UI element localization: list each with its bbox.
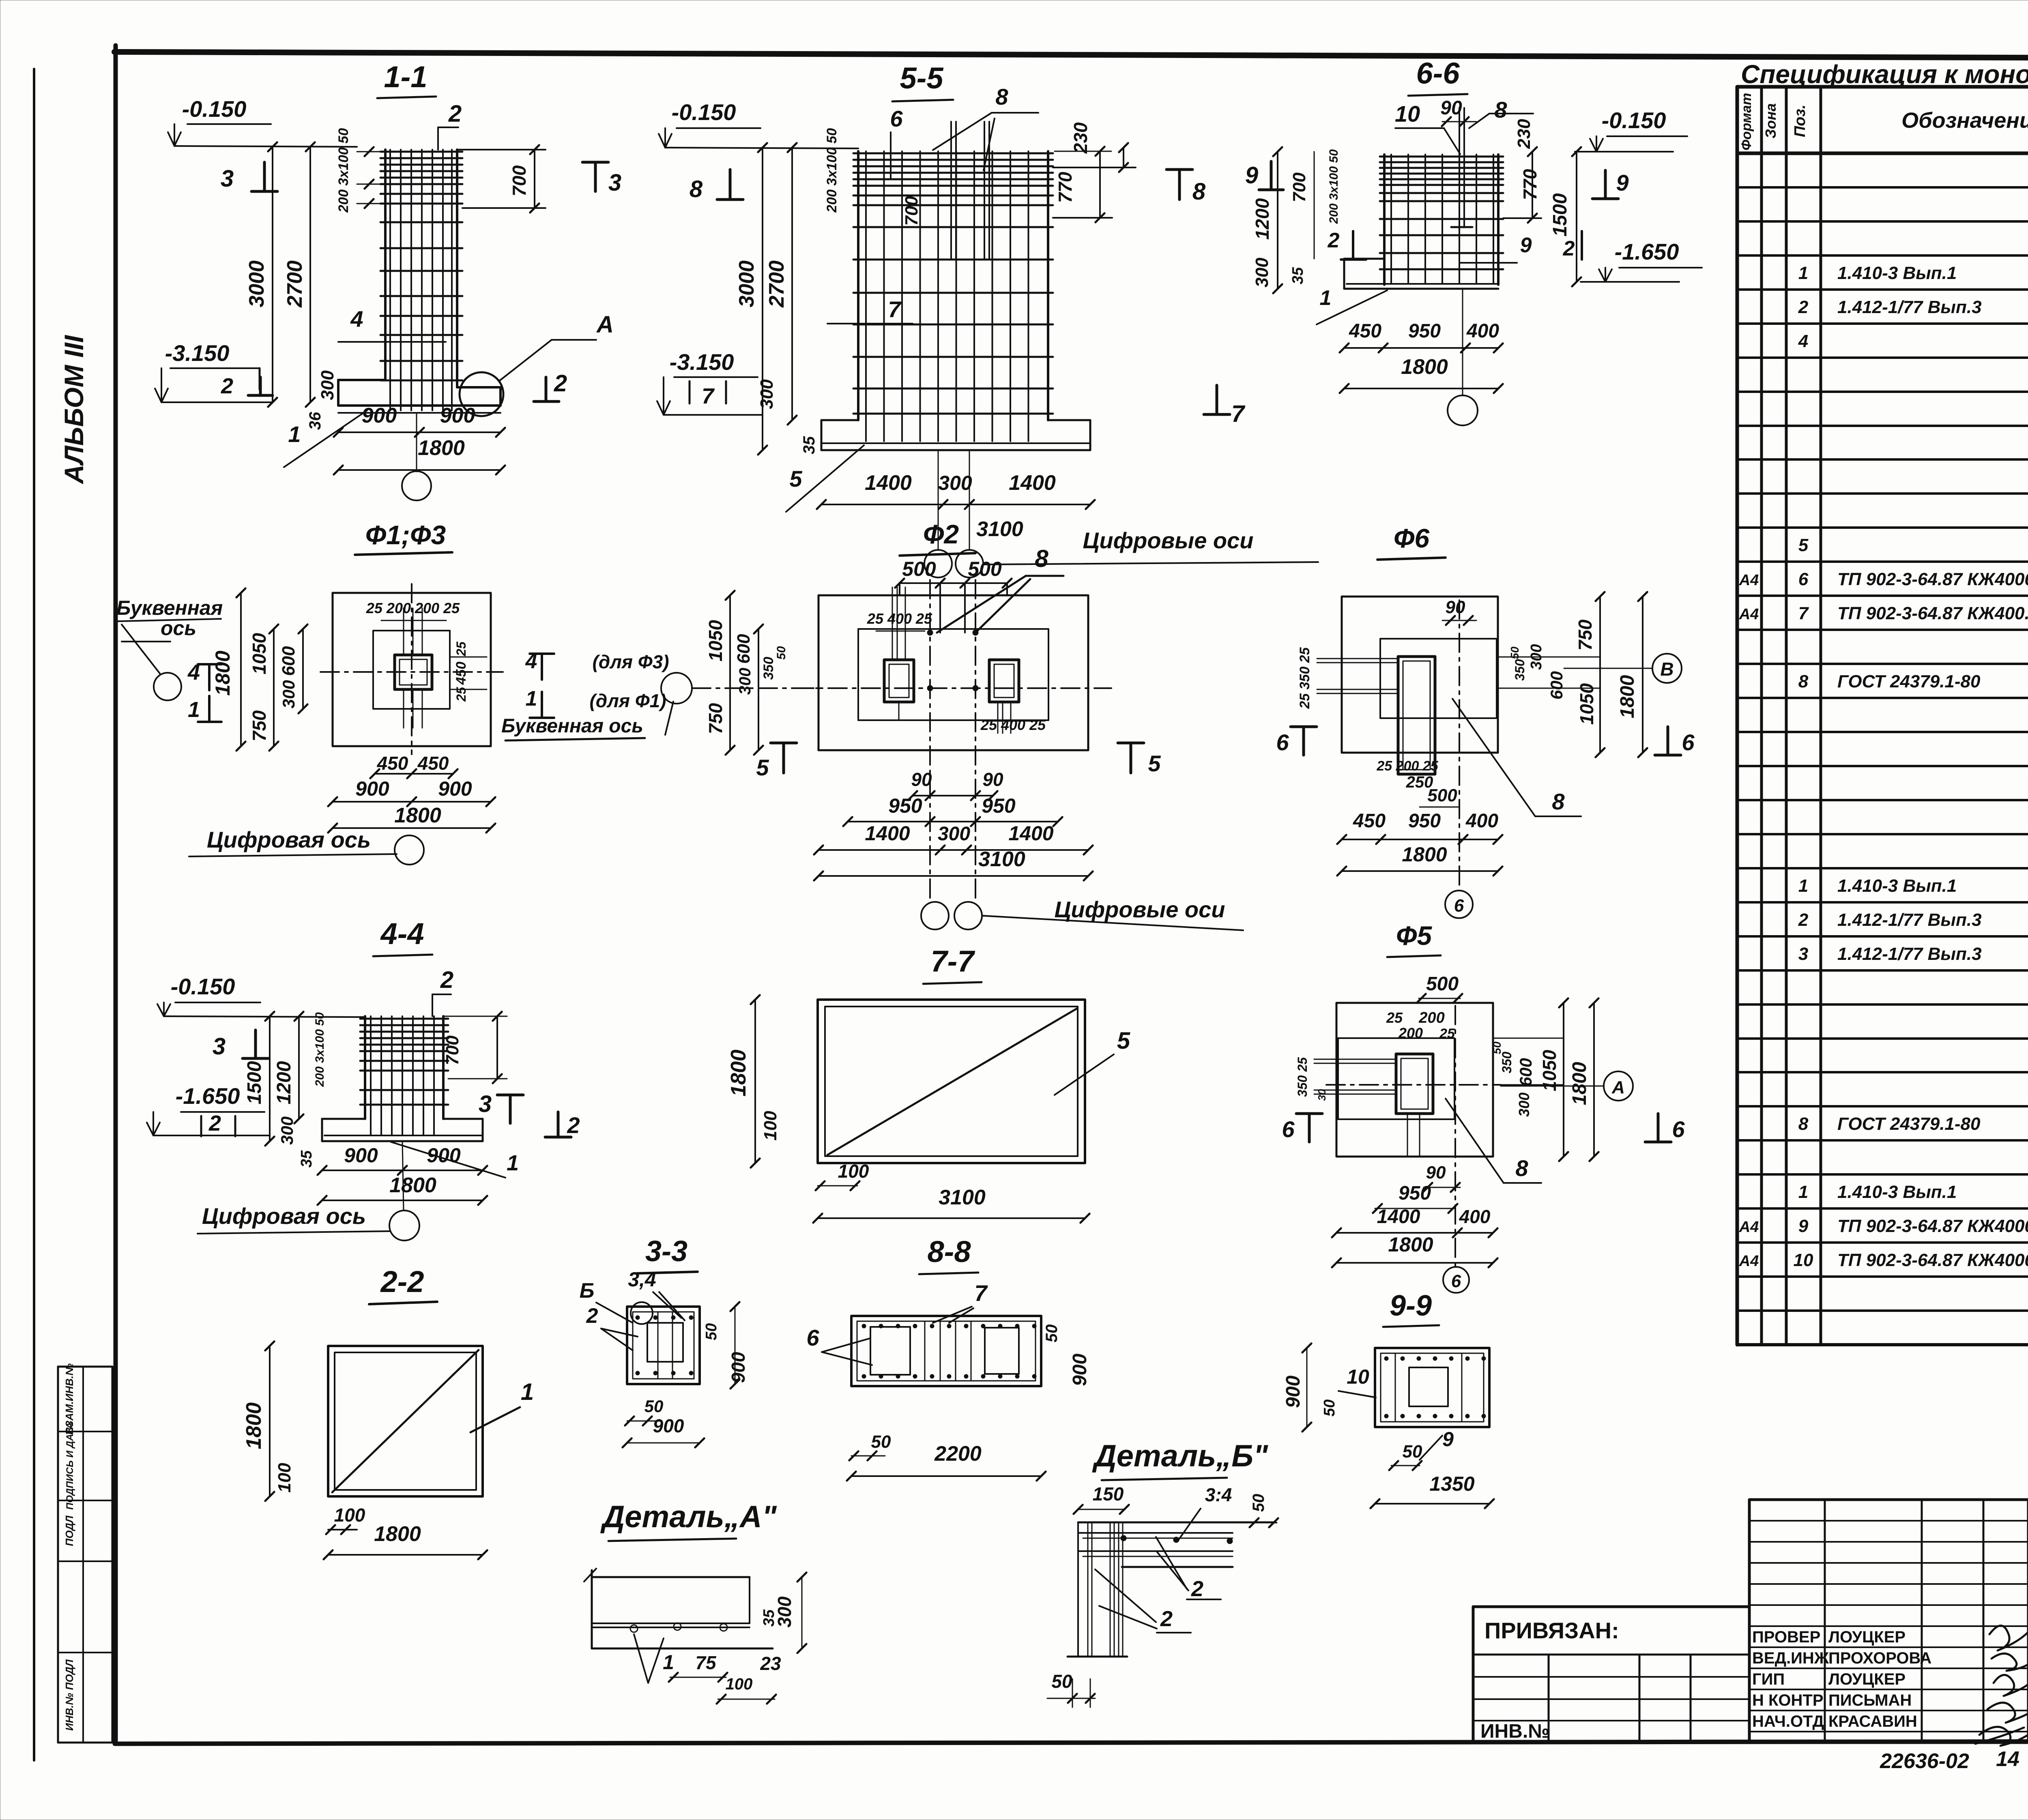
plan Ф6 right dims bbox=[1498, 592, 1647, 757]
svg-text:Зона: Зона bbox=[1762, 103, 1779, 139]
svg-text:400: 400 bbox=[1459, 1206, 1491, 1227]
title block signature grid bbox=[1749, 1500, 2028, 1743]
section 5-5 dims 3000 2700 bbox=[735, 143, 797, 455]
svg-text:770: 770 bbox=[1519, 169, 1540, 200]
album label "Альбом III" bbox=[59, 335, 89, 485]
svg-text:ПОДПИСЬ И ДАТА: ПОДПИСЬ И ДАТА bbox=[64, 1422, 75, 1510]
svg-text:3000: 3000 bbox=[245, 260, 269, 307]
section 5-5 level -3.150 bbox=[657, 349, 763, 415]
svg-text:1800: 1800 bbox=[1617, 675, 1638, 718]
svg-text:1400: 1400 bbox=[1377, 1206, 1420, 1228]
title block signatures bbox=[1975, 1626, 2028, 1746]
section 6-6 right dims 770 1500 bbox=[1503, 147, 1581, 286]
svg-text:5: 5 bbox=[1117, 1028, 1130, 1054]
svg-text:8: 8 bbox=[1552, 789, 1565, 814]
svg-text:700: 700 bbox=[902, 196, 922, 226]
svg-text:750: 750 bbox=[705, 703, 726, 734]
svg-text:50: 50 bbox=[775, 646, 788, 660]
section 2-2 panel bbox=[328, 1346, 483, 1496]
svg-text:3:4: 3:4 bbox=[1205, 1484, 1232, 1505]
section 1-1 mark 1 leader bbox=[284, 410, 367, 467]
plan Ф5 label bbox=[1387, 921, 1441, 957]
svg-text:25: 25 bbox=[454, 641, 468, 657]
svg-text:25 200 25: 25 200 25 bbox=[1376, 758, 1438, 774]
svg-text:600: 600 bbox=[1516, 1058, 1535, 1086]
svg-text:50: 50 bbox=[1403, 1442, 1422, 1462]
svg-text:7-7: 7-7 bbox=[931, 944, 976, 978]
section 1-1 axis circle bbox=[402, 414, 431, 500]
svg-text:50: 50 bbox=[1043, 1324, 1061, 1343]
svg-text:6: 6 bbox=[1672, 1116, 1685, 1142]
section 1-1 cut mark 3 left bbox=[221, 162, 277, 192]
svg-text:950: 950 bbox=[982, 794, 1016, 817]
detail A figure bbox=[584, 1569, 773, 1648]
svg-text:-1.650: -1.650 bbox=[176, 1083, 240, 1109]
section 7-7 label bbox=[923, 944, 982, 984]
svg-text:450: 450 bbox=[377, 753, 408, 774]
svg-text:1050: 1050 bbox=[1576, 683, 1597, 725]
title block left extension bbox=[1473, 1607, 1749, 1743]
svg-text:Спецификация к монолитным фунд: Спецификация к монолитным фундаментам bbox=[1741, 60, 2028, 89]
plan Ф2 label bbox=[900, 519, 975, 556]
svg-text:6: 6 bbox=[1682, 730, 1695, 755]
svg-text:150: 150 bbox=[1093, 1483, 1124, 1505]
section 6-6 column reinforcement grid bbox=[1380, 155, 1503, 285]
svg-text:1: 1 bbox=[188, 698, 200, 722]
svg-text:ГОСТ 24379.1-80: ГОСТ 24379.1-80 bbox=[1837, 672, 1981, 691]
section 4-4 cut mark 2 right bbox=[545, 1112, 580, 1138]
svg-text:1200: 1200 bbox=[1252, 198, 1273, 240]
plan Ф2 top dims 500 500 bbox=[895, 558, 1012, 633]
section 5-5 mark 7 leader bbox=[827, 296, 913, 324]
section 8-8 panel bbox=[851, 1316, 1041, 1386]
plan Ф2 column bar extensions bbox=[892, 587, 1011, 733]
svg-text:6: 6 bbox=[1454, 896, 1464, 916]
plan Ф2 numeric axes circles bbox=[921, 897, 1243, 930]
svg-text:1: 1 bbox=[288, 421, 301, 447]
section 8-8 dims bbox=[847, 1324, 1091, 1481]
svg-text:2700: 2700 bbox=[283, 260, 307, 308]
svg-text:ЛОУЦКЕР: ЛОУЦКЕР bbox=[1828, 1670, 1906, 1688]
svg-text:А4: А4 bbox=[1739, 606, 1759, 623]
svg-text:6-6: 6-6 bbox=[1416, 56, 1460, 90]
section 1-1 column reinforcement grid bbox=[380, 150, 462, 410]
svg-text:900: 900 bbox=[440, 404, 475, 427]
svg-text:Ф1;Ф3: Ф1;Ф3 bbox=[365, 520, 446, 550]
svg-text:500: 500 bbox=[902, 558, 936, 580]
svg-text:200: 200 bbox=[1418, 1009, 1444, 1026]
svg-text:14: 14 bbox=[1996, 1747, 2019, 1771]
plan Ф5 bars left bbox=[1295, 1057, 1396, 1101]
svg-text:АЛЬБОМ III: АЛЬБОМ III bbox=[59, 335, 89, 485]
svg-text:900: 900 bbox=[427, 1144, 461, 1167]
svg-text:900: 900 bbox=[362, 404, 397, 427]
svg-text:(для Ф1): (для Ф1) bbox=[589, 690, 666, 711]
svg-text:ЛОУЦКЕР: ЛОУЦКЕР bbox=[1828, 1628, 1906, 1646]
svg-text:1400: 1400 bbox=[1008, 822, 1053, 845]
svg-text:ПОДЛ: ПОДЛ bbox=[63, 1515, 75, 1546]
section 6-6 footing outline bbox=[1344, 259, 1498, 289]
plan Ф1;Ф3 label bbox=[355, 520, 452, 555]
svg-text:1400: 1400 bbox=[1009, 471, 1056, 495]
section 4-4 left dims 1500 1200 bbox=[244, 1012, 327, 1168]
svg-text:200 3х100 50: 200 3х100 50 bbox=[313, 1012, 327, 1087]
svg-text:Ф5: Ф5 bbox=[1396, 921, 1433, 951]
svg-text:2: 2 bbox=[1563, 237, 1575, 260]
svg-text:6: 6 bbox=[1276, 730, 1289, 755]
svg-text:Поз.: Поз. bbox=[1792, 105, 1809, 137]
svg-text:3-3: 3-3 bbox=[645, 1235, 687, 1268]
svg-text:950: 950 bbox=[1399, 1183, 1431, 1204]
plan Ф1;Ф3 section marks 4 and 1 left bbox=[187, 660, 221, 722]
svg-text:1.410-3 Вып.1: 1.410-3 Вып.1 bbox=[1837, 1182, 1957, 1202]
svg-text:10: 10 bbox=[1794, 1250, 1813, 1270]
section 1-1 rebar mark 4 bbox=[338, 306, 446, 342]
svg-text:-0.150: -0.150 bbox=[182, 96, 247, 122]
svg-text:ТП 902-3-64.87 КЖ40000.03.0: ТП 902-3-64.87 КЖ40000.03.00 bbox=[1837, 569, 2028, 589]
svg-text:900: 900 bbox=[438, 777, 472, 800]
svg-text:200 3х100 50: 200 3х100 50 bbox=[824, 128, 840, 213]
svg-text:300: 300 bbox=[279, 680, 298, 708]
svg-text:1050: 1050 bbox=[249, 633, 270, 674]
svg-text:Буквенная: Буквенная bbox=[116, 597, 223, 619]
svg-text:50: 50 bbox=[871, 1432, 891, 1452]
section 6-6 level -1.650 bbox=[1581, 239, 1702, 282]
section 6-6 anchor bolt and mark 8 bbox=[1440, 97, 1533, 227]
svg-text:90: 90 bbox=[1426, 1163, 1446, 1183]
svg-text:А: А bbox=[596, 311, 614, 338]
section 1-1 bottom dims 900+900 1800 bbox=[334, 404, 505, 474]
svg-text:5: 5 bbox=[1148, 751, 1161, 776]
plan Ф5 column bbox=[1396, 1054, 1433, 1156]
svg-text:3: 3 bbox=[479, 1091, 492, 1117]
svg-text:ТП 902-3-64.87 КЖ40000.01.00: ТП 902-3-64.87 КЖ40000.01.00 bbox=[1837, 1216, 2028, 1236]
section 1-1 cut label 2 top bbox=[438, 101, 462, 150]
plan Ф2 axes dashes and dots bbox=[795, 580, 1111, 901]
svg-text:600: 600 bbox=[279, 646, 299, 676]
svg-text:1.410-3 Вып.1: 1.410-3 Вып.1 bbox=[1837, 876, 1957, 896]
plan Ф6 column bbox=[1398, 657, 1435, 774]
svg-text:4: 4 bbox=[1798, 331, 1808, 351]
section 5-5 axis circles bbox=[924, 450, 1318, 577]
svg-text:ПРОВЕР: ПРОВЕР bbox=[1752, 1628, 1820, 1646]
svg-text:5: 5 bbox=[1798, 535, 1809, 555]
section 5-5 column reinforcement grid bbox=[853, 151, 1053, 441]
svg-text:1500: 1500 bbox=[1549, 193, 1571, 236]
svg-text:300: 300 bbox=[757, 379, 777, 409]
plan Ф1;Ф3 left dims bbox=[211, 588, 307, 751]
specification table header bbox=[1739, 93, 2028, 150]
svg-text:90: 90 bbox=[982, 769, 1003, 790]
svg-text:6: 6 bbox=[1282, 1116, 1295, 1142]
svg-text:25: 25 bbox=[1386, 1009, 1403, 1026]
plan Ф2 small dims 25 400 25 top bbox=[867, 610, 1046, 733]
svg-text:8-8: 8-8 bbox=[928, 1235, 971, 1268]
plan Ф2 cut mark 5 right bbox=[1118, 743, 1161, 776]
svg-text:-0.150: -0.150 bbox=[1602, 107, 1666, 133]
svg-text:450: 450 bbox=[417, 753, 449, 774]
section 5-5 dims 700 770 right bbox=[902, 143, 1136, 226]
plan Ф5 numeric axis circle bbox=[1443, 1267, 1469, 1293]
plan Ф2 cut mark 5 left bbox=[756, 743, 797, 780]
section 4-4 cut label 2 top bbox=[432, 967, 453, 1016]
svg-text:300: 300 bbox=[1516, 1092, 1532, 1117]
section 1-1 cut mark 2 right bbox=[534, 370, 567, 401]
svg-text:Формат: Формат bbox=[1739, 93, 1754, 150]
plan Ф2 outline bbox=[819, 595, 1088, 750]
svg-text:ПРИВЯЗАН:: ПРИВЯЗАН: bbox=[1484, 1618, 1619, 1643]
svg-text:100: 100 bbox=[275, 1463, 294, 1493]
svg-text:4: 4 bbox=[350, 306, 363, 332]
section 2-2 label bbox=[369, 1265, 437, 1304]
svg-text:6: 6 bbox=[890, 106, 903, 131]
plan Ф6 bottom dims bbox=[1337, 758, 1502, 876]
plan Ф1;Ф3 bottom dims bbox=[328, 753, 495, 833]
svg-text:2: 2 bbox=[567, 1112, 580, 1138]
svg-text:950: 950 bbox=[888, 794, 922, 817]
plan Ф6 cut marks 6 bbox=[1276, 727, 1695, 755]
svg-text:9: 9 bbox=[1442, 1428, 1454, 1451]
section 4-4 cut mark 3 right bbox=[479, 1091, 523, 1123]
svg-text:1050: 1050 bbox=[705, 620, 726, 661]
svg-text:Буквенная ось: Буквенная ось bbox=[501, 715, 643, 737]
svg-text:Цифровые оси: Цифровые оси bbox=[1083, 528, 1254, 553]
svg-text:1.412-1/77 Вып.3: 1.412-1/77 Вып.3 bbox=[1837, 297, 1982, 317]
svg-text:900: 900 bbox=[653, 1415, 684, 1436]
specification table title bbox=[1741, 60, 2028, 89]
svg-text:2-2: 2-2 bbox=[380, 1265, 424, 1298]
section 9-9 label bbox=[1383, 1290, 1439, 1327]
svg-text:300: 300 bbox=[736, 668, 754, 695]
section 8-8 label bbox=[919, 1235, 978, 1274]
svg-text:6: 6 bbox=[1451, 1271, 1461, 1291]
svg-text:1800: 1800 bbox=[727, 1050, 750, 1097]
svg-text:Ф6: Ф6 bbox=[1394, 523, 1430, 553]
svg-text:1: 1 bbox=[521, 1379, 534, 1405]
section 5-5 cut mark 8 left bbox=[690, 170, 743, 202]
svg-text:8: 8 bbox=[995, 84, 1008, 109]
section 1-1 dim 36 bbox=[306, 412, 324, 430]
svg-text:Цифровая ось: Цифровая ось bbox=[207, 827, 371, 852]
svg-text:Деталь„А": Деталь„А" bbox=[600, 1500, 777, 1534]
svg-text:25 200 200 25: 25 200 200 25 bbox=[366, 600, 460, 616]
svg-text:8: 8 bbox=[1798, 672, 1809, 691]
svg-text:75: 75 bbox=[695, 1652, 717, 1673]
section 3-3 panel bbox=[627, 1307, 700, 1384]
section 4-4 dim 700 right bbox=[443, 1012, 507, 1083]
svg-text:1-1: 1-1 bbox=[384, 60, 428, 94]
svg-text:6: 6 bbox=[806, 1325, 819, 1350]
svg-text:3: 3 bbox=[221, 165, 234, 192]
svg-text:3: 3 bbox=[213, 1033, 226, 1060]
svg-text:300: 300 bbox=[938, 472, 972, 494]
section 8-8 mark 6 leader bbox=[806, 1325, 872, 1365]
svg-text:90: 90 bbox=[1446, 597, 1465, 617]
svg-text:НАЧ.ОТД: НАЧ.ОТД bbox=[1752, 1713, 1824, 1730]
section 4-4 mark 1 leader bbox=[391, 1142, 519, 1178]
plan Ф1;Ф3 bars bbox=[320, 584, 503, 754]
detail B dims top bbox=[1074, 1483, 1278, 1541]
section 6-6 cut mark 9 right top bbox=[1592, 170, 1629, 199]
svg-text:1: 1 bbox=[1798, 1182, 1808, 1202]
svg-text:35: 35 bbox=[1289, 267, 1306, 284]
section 5-5 small top dims bbox=[824, 128, 840, 213]
section 6-6 label bbox=[1408, 56, 1467, 96]
svg-text:Обозначение: Обозначение bbox=[1901, 108, 2028, 133]
section 1-1 label bbox=[377, 60, 436, 98]
svg-text:500: 500 bbox=[1427, 786, 1457, 805]
svg-text:7: 7 bbox=[1798, 603, 1809, 623]
section 6-6 left dims 1200 700 300 35 bbox=[1252, 147, 1341, 293]
svg-text:-3.150: -3.150 bbox=[670, 349, 734, 375]
svg-text:400: 400 bbox=[1466, 320, 1499, 342]
svg-text:ТП 902-3-64.87 КЖ40000.02.00: ТП 902-3-64.87 КЖ40000.02.00 bbox=[1837, 1250, 2028, 1270]
plan Ф6 outline bbox=[1342, 597, 1498, 753]
section 6-6 mark 10 bbox=[1395, 101, 1460, 154]
svg-text:5: 5 bbox=[789, 466, 802, 491]
svg-text:35: 35 bbox=[800, 436, 818, 454]
svg-text:23: 23 bbox=[760, 1653, 781, 1674]
section 4-4 bottom dims 900 900 1800 bbox=[318, 1144, 487, 1205]
section 5-5 dims 300 35 bbox=[757, 379, 818, 454]
svg-text:7: 7 bbox=[974, 1280, 988, 1306]
svg-text:1400: 1400 bbox=[865, 471, 912, 495]
svg-text:А4: А4 bbox=[1739, 1219, 1759, 1236]
svg-text:700: 700 bbox=[443, 1035, 462, 1065]
section 6-6 bottom dims 450 950 400 1800 bbox=[1340, 320, 1503, 393]
svg-text:-0.150: -0.150 bbox=[672, 99, 736, 125]
svg-text:950: 950 bbox=[1408, 320, 1441, 342]
svg-text:3: 3 bbox=[608, 170, 621, 196]
svg-text:2: 2 bbox=[448, 101, 462, 127]
svg-text:ИНВ.№ ПОДЛ: ИНВ.№ ПОДЛ bbox=[63, 1659, 75, 1731]
section 1-1 level -0.150 bbox=[168, 96, 357, 147]
svg-text:6: 6 bbox=[1798, 569, 1809, 589]
section 7-7 dims bbox=[727, 995, 1089, 1223]
svg-text:500: 500 bbox=[968, 558, 1002, 580]
section 7-7 mark 5 leader bbox=[1055, 1028, 1130, 1095]
section 4-4 level -0.150 bbox=[157, 974, 365, 1017]
svg-text:450: 450 bbox=[1349, 320, 1381, 342]
svg-text:ПРОХОРОВА: ПРОХОРОВА bbox=[1828, 1649, 1931, 1667]
svg-text:КРАСАВИН: КРАСАВИН bbox=[1828, 1713, 1917, 1730]
svg-text:350: 350 bbox=[761, 657, 776, 680]
svg-text:2: 2 bbox=[586, 1304, 598, 1328]
svg-text:1800: 1800 bbox=[242, 1402, 266, 1449]
svg-text:4-4: 4-4 bbox=[380, 917, 424, 951]
section 5-5 footing outline bbox=[821, 420, 1090, 450]
svg-text:750: 750 bbox=[1575, 619, 1596, 650]
svg-text:ИНВ.№: ИНВ.№ bbox=[1480, 1721, 1550, 1742]
svg-text:50: 50 bbox=[1321, 1399, 1338, 1417]
svg-text:1800: 1800 bbox=[374, 1522, 421, 1546]
svg-text:500: 500 bbox=[1426, 973, 1459, 995]
detail A label bbox=[600, 1500, 777, 1541]
svg-text:600: 600 bbox=[734, 634, 754, 664]
svg-text:А: А bbox=[1611, 1077, 1625, 1097]
section 6-6 level -0.150 bbox=[1575, 107, 1687, 152]
section 2-2 mark 1 leader bbox=[470, 1379, 534, 1432]
svg-text:50: 50 bbox=[1250, 1494, 1267, 1512]
plan Ф1;Ф3 right small dims bbox=[450, 641, 487, 702]
svg-text:В: В bbox=[1660, 659, 1674, 680]
svg-text:2: 2 bbox=[440, 967, 453, 993]
plan Ф1;Ф3 column bbox=[395, 655, 432, 689]
plan Ф5 axis A circle bbox=[1501, 1071, 1633, 1101]
svg-text:35: 35 bbox=[760, 1609, 778, 1627]
plan Ф2 left dims bbox=[705, 591, 788, 755]
svg-text:25 400 25: 25 400 25 bbox=[867, 610, 932, 627]
svg-text:50: 50 bbox=[703, 1323, 720, 1340]
svg-text:100: 100 bbox=[760, 1111, 780, 1141]
svg-text:Цифровая ось: Цифровая ось bbox=[202, 1203, 366, 1229]
section 3-3 label bbox=[637, 1235, 698, 1273]
svg-text:Цифровые оси: Цифровые оси bbox=[1055, 897, 1225, 922]
svg-text:600: 600 bbox=[1547, 671, 1566, 700]
svg-text:22636-02: 22636-02 bbox=[1880, 1749, 1969, 1773]
svg-text:А4: А4 bbox=[1739, 572, 1759, 589]
svg-text:9: 9 bbox=[1798, 1216, 1809, 1236]
svg-text:2700: 2700 bbox=[765, 260, 788, 308]
svg-text:2: 2 bbox=[208, 1111, 221, 1135]
svg-text:1.412-1/77 Вып.3: 1.412-1/77 Вып.3 bbox=[1837, 944, 1982, 964]
svg-text:100: 100 bbox=[838, 1161, 869, 1182]
svg-text:1: 1 bbox=[507, 1151, 519, 1175]
svg-text:100: 100 bbox=[726, 1675, 753, 1693]
detail B bottom dim 50 bbox=[1047, 1671, 1095, 1707]
section 1-1 detail circle A bbox=[460, 311, 614, 416]
svg-text:900: 900 bbox=[1283, 1376, 1304, 1408]
svg-text:900: 900 bbox=[355, 777, 389, 800]
svg-text:2200: 2200 bbox=[934, 1442, 982, 1466]
plan Ф6 axis B circle bbox=[1564, 654, 1682, 683]
svg-text:1350: 1350 bbox=[1429, 1472, 1474, 1495]
svg-text:1.410-3 Вып.1: 1.410-3 Вып.1 bbox=[1837, 263, 1957, 283]
section 1-1 small top dims 200 3x100 50 bbox=[336, 128, 380, 213]
section 4-4 column reinforcement grid bbox=[360, 1016, 448, 1135]
svg-text:2: 2 bbox=[554, 370, 567, 397]
svg-text:2: 2 bbox=[1328, 229, 1340, 252]
section 1-1 cut mark 3 right bbox=[582, 162, 621, 196]
svg-text:35: 35 bbox=[298, 1150, 315, 1168]
svg-text:900: 900 bbox=[728, 1352, 749, 1383]
plan Ф5 bottom dims bbox=[1332, 1163, 1497, 1267]
left stamp strip bbox=[58, 1363, 112, 1743]
section 4-4 level -1.650 bbox=[147, 1083, 270, 1136]
detail A dims bbox=[634, 1573, 806, 1704]
section 7-7 panel bbox=[818, 1000, 1085, 1163]
svg-text:8: 8 bbox=[1798, 1114, 1809, 1134]
svg-text:450: 450 bbox=[453, 662, 469, 685]
svg-text:350: 350 bbox=[1500, 1052, 1514, 1073]
svg-text:1: 1 bbox=[663, 1651, 674, 1674]
svg-text:230: 230 bbox=[1514, 119, 1534, 149]
svg-text:50: 50 bbox=[644, 1397, 664, 1416]
svg-text:900: 900 bbox=[1069, 1354, 1091, 1386]
section 2-2 dims bbox=[242, 1341, 487, 1559]
section 1-1 footing outline bbox=[338, 380, 501, 413]
svg-text:Б: Б bbox=[580, 1279, 595, 1303]
plan Ф5 outline bbox=[1336, 1003, 1493, 1157]
plan Ф5 right dims bbox=[1491, 998, 1598, 1161]
svg-text:1800: 1800 bbox=[1401, 355, 1448, 379]
svg-text:1.412-1/77 Вып.3: 1.412-1/77 Вып.3 bbox=[1837, 910, 1982, 930]
svg-text:2: 2 bbox=[221, 374, 233, 398]
svg-text:1: 1 bbox=[1320, 286, 1332, 310]
svg-text:9-9: 9-9 bbox=[1390, 1290, 1432, 1322]
plan Ф2 letter axis circle bbox=[661, 673, 819, 704]
svg-text:50: 50 bbox=[1051, 1671, 1072, 1692]
